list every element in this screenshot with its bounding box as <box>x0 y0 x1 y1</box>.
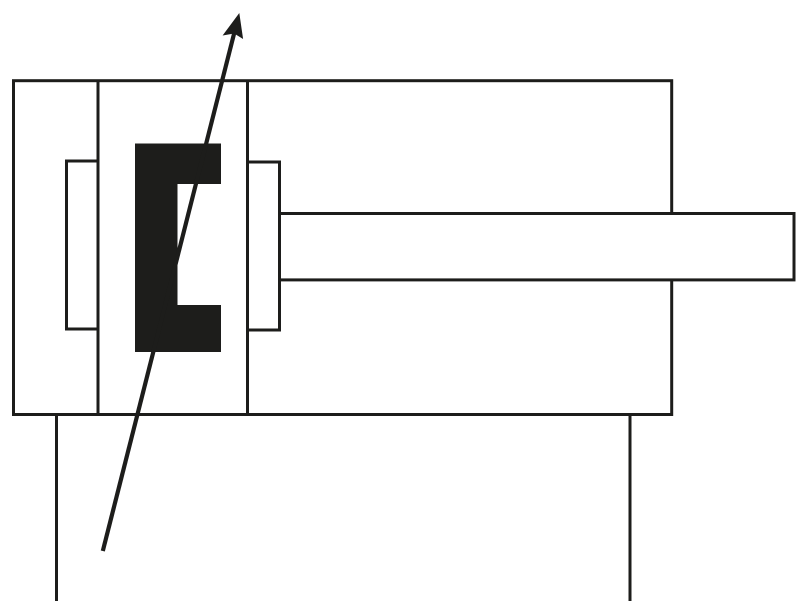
piston wall left <box>97 81 100 415</box>
cylinder barrel (body) <box>14 81 672 415</box>
cushion seal bracket (filled) <box>135 144 221 353</box>
mounting foot left <box>55 415 58 601</box>
mounting foot right <box>629 415 632 601</box>
adjustability arrow head <box>223 13 244 39</box>
piston wall right <box>246 81 249 415</box>
piston rod <box>280 214 795 280</box>
cushion sleeve right <box>248 162 280 330</box>
cushion sleeve left <box>67 161 99 329</box>
adjustability arrow shaft <box>103 26 236 551</box>
